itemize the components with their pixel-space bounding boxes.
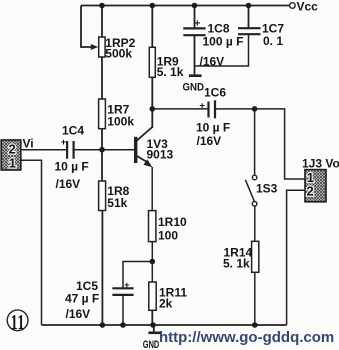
ground symbol (bottom) stem [153, 325, 155, 332]
svg-text:+: + [61, 137, 66, 147]
svg-text:+: + [124, 280, 129, 290]
wire: output pin2 to ground rail [287, 190, 305, 325]
ground rail [42, 324, 287, 326]
output connector 1J3 body [305, 170, 326, 202]
junction: rail / 1R9 [150, 3, 156, 9]
ground symbol (bottom) bar [148, 331, 160, 334]
switch 1S3 lever [245, 180, 254, 201]
switch 1S3 bottom contact [252, 202, 257, 207]
svg-text:10 µ F: 10 µ F [196, 121, 230, 135]
svg-text:2: 2 [307, 184, 314, 199]
wire: emitter node to 1C5 [123, 262, 152, 288]
capacitor 1C8 top plate [183, 27, 205, 29]
junction: 1C6 / switch [252, 106, 258, 112]
ground symbol (top) bar [189, 74, 202, 77]
resistor 1R9 [149, 47, 155, 77]
wire: emitter node to 1R11 [151, 262, 153, 283]
svg-text:1: 1 [9, 156, 16, 171]
svg-text:GND: GND [183, 82, 205, 94]
svg-text:/16V: /16V [197, 134, 222, 148]
wire: switch node to output pin1 [255, 109, 305, 179]
junction: 1R8 / ground rail [100, 322, 106, 328]
junction: 1R14 / ground rail [252, 322, 258, 328]
capacitor 1C7 top plate [238, 27, 261, 29]
svg-text:Vcc: Vcc [297, 0, 319, 13]
svg-text:500k: 500k [105, 47, 132, 61]
circled figure number 11 [7, 310, 28, 331]
switch 1S3 top contact [252, 175, 257, 180]
wire: collector node to transistor [151, 109, 153, 128]
wire: 1RP2 wiper feedback [81, 6, 92, 48]
svg-text:1R10: 1R10 [158, 215, 187, 229]
wire: rail to 1C7 [248, 6, 250, 29]
junction: base node [99, 147, 105, 153]
svg-text:2k: 2k [159, 297, 173, 311]
resistor 1R14 [252, 241, 259, 272]
ground symbol (top) stem [194, 66, 196, 75]
svg-text:100k: 100k [107, 115, 134, 129]
wire: base node to 1R8 [101, 150, 103, 181]
wire: 1C4 to base node [74, 149, 102, 151]
junction: rail / 1RP2 [99, 3, 105, 9]
potentiometer 1RP2 [99, 37, 105, 57]
resistor 1R8 [99, 181, 106, 211]
input connector body [1, 140, 21, 171]
svg-text:Vi: Vi [23, 137, 34, 151]
wire: rail to 1RP2 [101, 6, 103, 38]
wire: 1S3 to 1R14 [254, 206, 256, 241]
svg-text:/16V: /16V [200, 55, 225, 69]
wire: input pin2 to 1C4 [21, 149, 66, 151]
wire: 1C7 bottom to 1C8 bottom [195, 34, 249, 66]
wire: base [102, 149, 134, 151]
capacitor 1C5 top plate [112, 287, 133, 289]
svg-text:+: + [194, 18, 200, 30]
svg-text:/16V: /16V [56, 177, 81, 191]
svg-text:http://www.go-gddq.com: http://www.go-gddq.com [159, 329, 334, 346]
resistor 1R7 [99, 99, 106, 129]
transistor 1V3 emitter lead [137, 156, 148, 163]
junction: emitter node [150, 259, 156, 265]
svg-text:100 µ F: 100 µ F [203, 35, 244, 49]
junction: 1R11 / ground rail [150, 322, 156, 328]
wire: rail to 1R9 [151, 6, 153, 48]
Vcc terminal [290, 3, 296, 9]
wire: 1C6 to switch node [215, 108, 255, 110]
emitter arrowhead [143, 159, 152, 167]
resistor 1R10 [149, 211, 156, 242]
svg-text:11: 11 [11, 310, 25, 333]
svg-text:/16V: /16V [66, 307, 91, 321]
svg-text:1C6: 1C6 [204, 86, 226, 100]
resistor 1R11 [149, 282, 156, 310]
Vcc rail [81, 5, 290, 7]
junction: 1C5 / ground rail [120, 322, 126, 328]
capacitor 1C6 right plate [214, 100, 216, 118]
wire: 1RP2 to 1R7 [101, 57, 103, 99]
junction: collector node [150, 106, 156, 112]
svg-text:10 µ F: 10 µ F [55, 160, 89, 174]
svg-text:47 µ F: 47 µ F [65, 292, 99, 306]
capacitor 1C7 bottom plate [238, 33, 261, 35]
transistor 1V3 collector lead [137, 127, 153, 141]
svg-text:5. 1k: 5. 1k [157, 65, 184, 79]
svg-text:1S3: 1S3 [256, 182, 278, 196]
wiper arrowhead [91, 44, 98, 50]
svg-text:2: 2 [9, 142, 16, 157]
svg-text:5. 1k: 5. 1k [223, 257, 250, 271]
wire: emitter to 1R10 [151, 167, 153, 211]
wire: rail to 1C8 [194, 6, 196, 29]
capacitor 1C4 right plate [72, 141, 74, 159]
wire: 1R10 to emitter node [151, 242, 153, 262]
wire: collector node to 1C6 [152, 108, 208, 110]
svg-text:51k: 51k [107, 196, 127, 210]
svg-text:9013: 9013 [147, 148, 174, 162]
svg-text:1C8: 1C8 [208, 22, 230, 36]
capacitor 1C6 left plate [207, 102, 209, 118]
wire: 1R8 to ground rail [101, 211, 103, 326]
wire: 1C8 to ground [194, 35, 196, 66]
wire: 1R11 to ground rail [151, 310, 153, 325]
transistor 1V3 base bar [134, 137, 137, 163]
wire: 1R14 to ground rail [254, 272, 256, 325]
svg-text:+: + [199, 100, 205, 111]
capacitor 1C5 bottom plate [112, 294, 133, 296]
wire: 1R7 to base node [101, 129, 103, 150]
wire: 1C5 to ground rail [122, 295, 124, 325]
junction: rail / 1C7 [246, 3, 252, 9]
svg-text:1J3 Vo: 1J3 Vo [302, 157, 339, 171]
svg-text:0. 1: 0. 1 [263, 34, 283, 48]
svg-text:100: 100 [158, 229, 178, 243]
wire: switch node down to 1S3 [254, 109, 256, 175]
wire: input pin1 to ground rail [21, 160, 42, 325]
wire: 1R9 to collector node [151, 77, 153, 109]
svg-text:GND: GND [143, 339, 160, 350]
junction: rail / 1C8 [192, 3, 198, 9]
capacitor 1C4 left plate [66, 141, 68, 159]
capacitor 1C8 bottom plate [183, 34, 205, 36]
svg-text:1C4: 1C4 [62, 124, 84, 138]
